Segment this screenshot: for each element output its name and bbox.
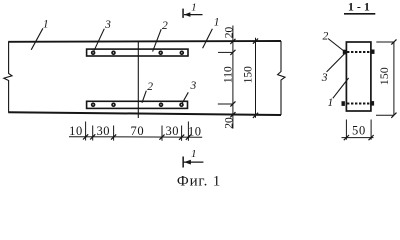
leader for label 1 (left beam segment) [31,28,43,50]
section view: left bolt head bottom [342,101,345,106]
section view: beam cross-section rectangle [346,42,371,111]
extension stub bottom bolt line (right dims) [218,103,233,105]
svg-text:150: 150 [377,67,391,85]
wire: vertical splice joint line between beam segments [137,42,139,119]
section view: right bolt head top [371,50,374,54]
bolt hole top plate #2 [112,51,115,54]
extension lines 150 dim (section) [376,41,394,43]
svg-text:2: 2 [147,81,153,93]
svg-text:10: 10 [188,124,202,138]
svg-text:150: 150 [243,66,255,84]
leader for label 1 (right beam segment) [203,29,213,49]
dimension line: bottom chain 10/30/70/30/10 [69,136,202,139]
section cut symbol bottom: bar [182,157,184,168]
section view 1-1: underline of title [344,13,375,15]
leader for label 3 (top, to first bolt) [94,29,104,51]
svg-text:1 - 1: 1 - 1 [348,0,370,14]
section view: left bolt head top [343,50,346,55]
section view: top bolt dashed line [347,51,371,53]
wire: beam top flange line [8,40,281,43]
section cut symbol bottom: arrowhead [184,160,191,165]
svg-text:Фиг. 1: Фиг. 1 [177,173,221,189]
plate: bottom cover plate (pos.2) [87,101,188,108]
svg-text:20: 20 [223,27,235,39]
bolt hole bottom plate #3 [160,103,163,106]
leader for label 2 (top plate) [153,29,162,51]
svg-text:3: 3 [190,80,197,92]
svg-text:70: 70 [131,124,145,138]
section cut symbol bottom: arrow line [184,161,204,163]
svg-text:110: 110 [223,66,235,83]
svg-text:1: 1 [191,148,197,160]
section cut symbol top: arrow line [184,14,203,16]
leader for label 3 (bottom, to 4th bolt) [182,92,188,103]
bolt hole bottom plate #4 [180,103,183,106]
svg-text:20: 20 [223,117,235,129]
dimension line 50 (section) [342,137,374,139]
wire: beam bottom flange line [8,112,281,115]
svg-text:2: 2 [162,20,168,32]
plate: top cover plate (pos.2) [87,49,188,56]
dimension line 150 (section) [393,42,395,115]
svg-text:30: 30 [165,124,179,138]
section view: bottom bolt dashed line [347,103,371,105]
leader for section label 1 [333,78,349,98]
svg-text:10: 10 [69,124,83,138]
bolt hole top plate #3 [159,51,162,54]
dimension line: inner vertical 20/110/20 [232,26,234,129]
bolt hole bottom plate #1 [92,103,95,106]
svg-text:1: 1 [191,2,197,14]
leader for label 2 (bottom plate) [142,91,146,103]
dimension line: outer vertical 150 [255,38,257,118]
svg-text:3: 3 [104,19,111,31]
slash ticks bottom dimension [83,134,191,140]
svg-text:50: 50 [352,123,366,137]
node: right break edge of beam [278,41,285,115]
svg-text:30: 30 [96,124,110,138]
extension ticks bottom dimension [85,122,87,141]
slash ticks right dims [230,39,258,118]
leader for section label 2 [328,39,345,52]
section view: right bolt head bottom [371,101,374,106]
svg-text:1: 1 [43,18,49,30]
bolt hole top plate #4 [180,51,183,54]
extension stub top bolt line (right dims) [218,51,233,53]
extension lines 50 dim (section) [345,120,347,140]
svg-text:1: 1 [328,97,334,109]
svg-text:1: 1 [214,17,220,29]
leader for section label 3 [327,53,345,72]
svg-text:3: 3 [321,72,328,84]
node: left break edge of beam [4,42,12,112]
bolt hole bottom plate #2 [112,103,115,106]
section cut symbol top: arrowhead [184,12,190,17]
section cut symbol top: bar [182,9,184,18]
bolt hole top plate #1 [92,51,95,54]
svg-text:2: 2 [323,31,329,43]
